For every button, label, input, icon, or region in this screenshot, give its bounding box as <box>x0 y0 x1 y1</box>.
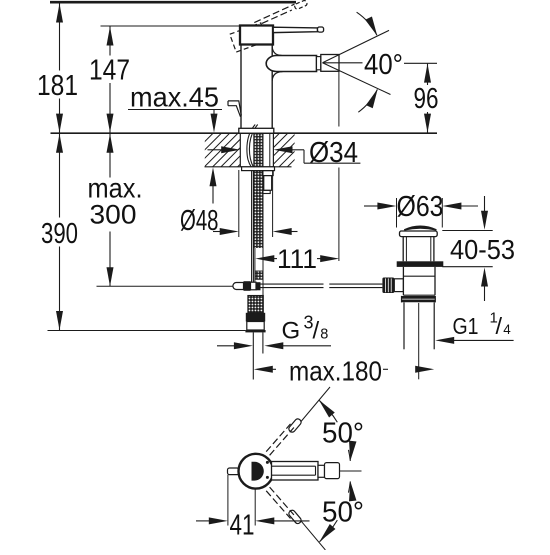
svg-text:300: 300 <box>90 200 137 230</box>
svg-text:Ø63: Ø63 <box>397 191 444 223</box>
svg-text:40°: 40° <box>364 49 403 81</box>
svg-text:111: 111 <box>277 244 317 274</box>
svg-text:40-53: 40-53 <box>450 234 515 265</box>
svg-text:50°: 50° <box>322 418 364 450</box>
svg-text:Ø34: Ø34 <box>309 137 358 169</box>
svg-text:max.180: max.180 <box>289 356 382 387</box>
svg-text:/: / <box>496 313 503 339</box>
svg-text:/: / <box>313 318 320 345</box>
svg-text:147: 147 <box>89 55 130 87</box>
svg-text:181: 181 <box>37 70 78 102</box>
svg-text:96: 96 <box>414 83 439 115</box>
svg-text:8: 8 <box>320 327 328 343</box>
svg-text:4: 4 <box>503 322 511 337</box>
svg-text:max.45: max.45 <box>130 82 219 113</box>
svg-text:41: 41 <box>230 510 255 542</box>
svg-text:50°: 50° <box>322 497 364 529</box>
svg-text:390: 390 <box>41 218 78 250</box>
svg-text:G1: G1 <box>453 313 479 339</box>
svg-text:Ø48: Ø48 <box>180 205 219 237</box>
svg-text:G: G <box>282 318 301 345</box>
